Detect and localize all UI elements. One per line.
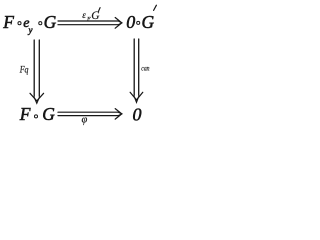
- svg-text:G: G: [44, 12, 57, 32]
- svg-text:y: y: [28, 25, 33, 35]
- svg-text:F: F: [19, 104, 31, 124]
- svg-text:ε: ε: [82, 10, 86, 20]
- svg-text:G: G: [91, 10, 100, 22]
- svg-text:G: G: [142, 12, 155, 32]
- svg-text:0: 0: [133, 105, 142, 125]
- svg-text:can: can: [141, 63, 149, 72]
- svg-text:0: 0: [126, 12, 135, 32]
- svg-text:Fq: Fq: [19, 65, 29, 75]
- svg-text:F: F: [2, 12, 14, 32]
- svg-text:φ: φ: [82, 114, 88, 125]
- svg-text:G: G: [42, 104, 55, 124]
